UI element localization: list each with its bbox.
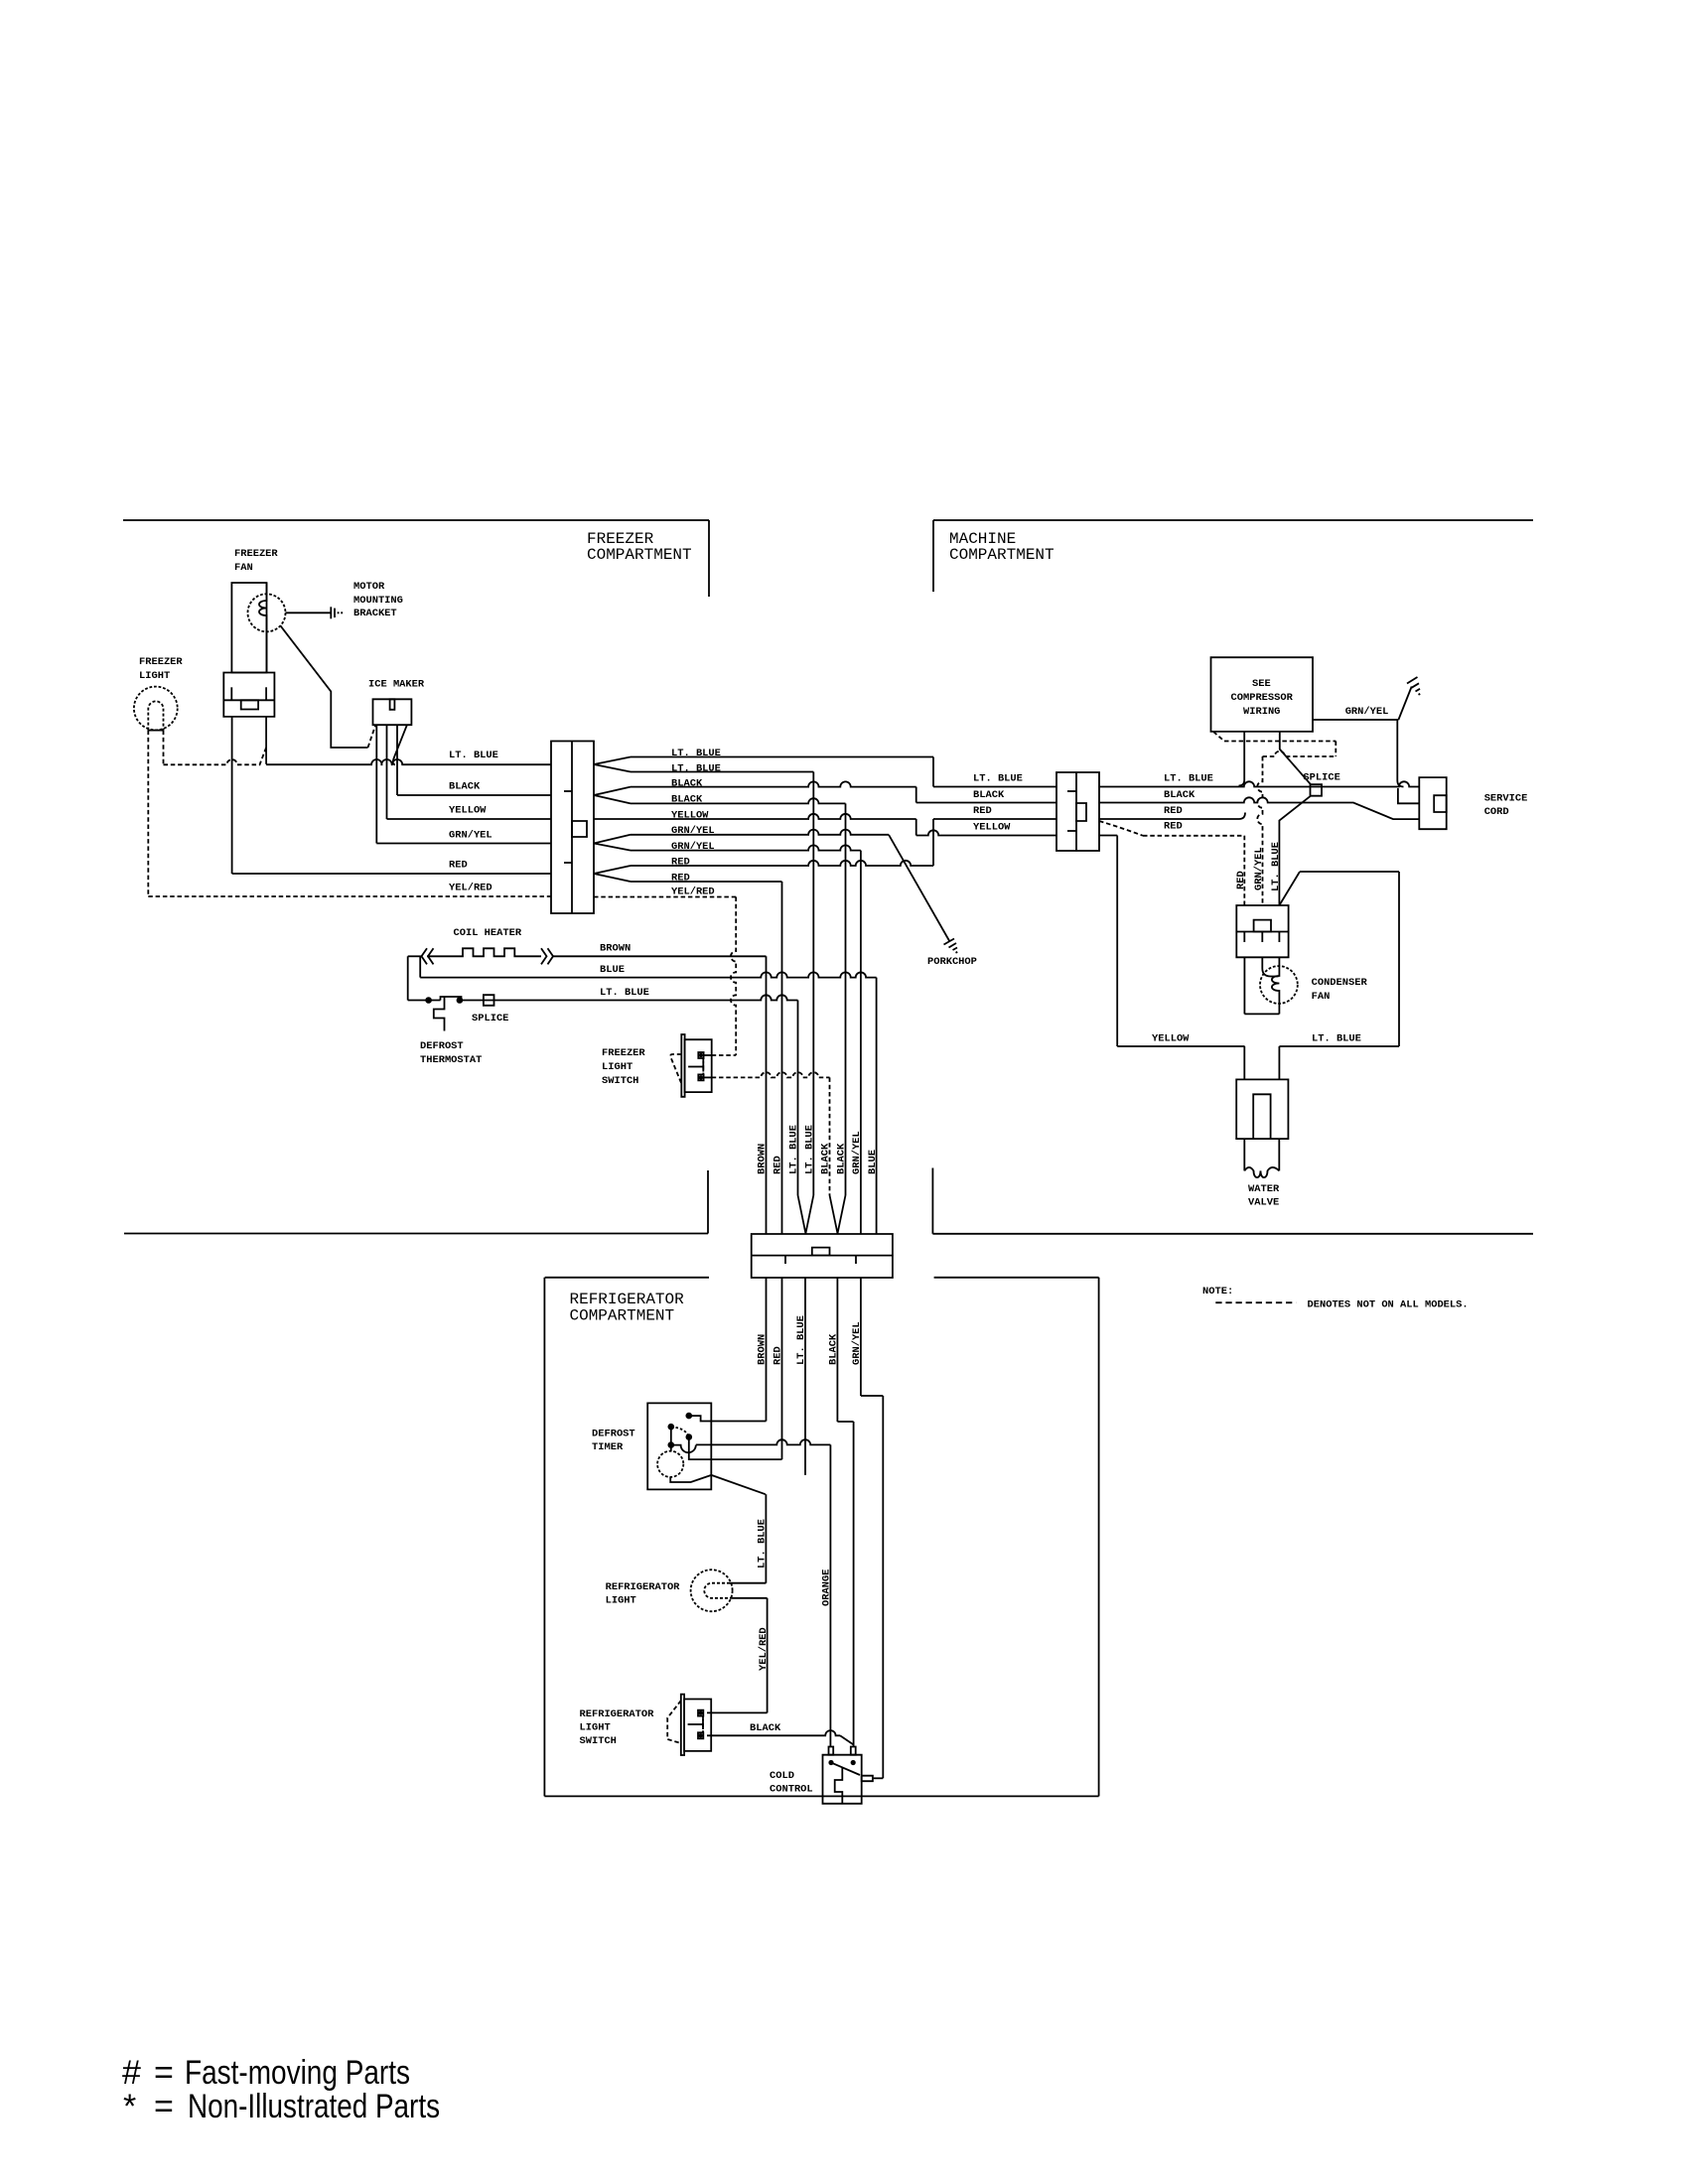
wire BROWN coil heater to refrigerator connector (553, 955, 767, 957)
relay pin to condenser fan winding (1262, 957, 1278, 976)
wire RED (2) J1 to refrigerator connector (631, 881, 782, 883)
water valve coil leads (1243, 1139, 1245, 1170)
svg-text:FREEZER: FREEZER (602, 1047, 645, 1059)
svg-text:=: = (154, 2088, 174, 2125)
wire ORANGE timer to cold control (829, 1444, 831, 1746)
motor mounting bracket lead (286, 612, 332, 614)
wire BLACK switch to cold control (707, 1730, 840, 1735)
wire BLACK pair wedge into connector (830, 1195, 838, 1234)
defrost timer terminal 3 lead (RED) (689, 1437, 782, 1460)
porkchop ground hash marks (944, 939, 955, 945)
wire YELLOW to water valve pin (1243, 1046, 1245, 1079)
machine compartment border (top) (933, 519, 1533, 521)
svg-text:MOTOR: MOTOR (353, 581, 385, 593)
wire BLUE down to refrigerator connector (876, 978, 878, 1234)
wire BROWN down to refrigerator connector (766, 956, 768, 1234)
svg-text:TIMER: TIMER (592, 1441, 624, 1453)
freezer light switch S3 body (685, 1039, 712, 1092)
svg-text:FREEZER: FREEZER (139, 656, 183, 668)
wire LT. BLUE relay to condenser fan loop (1279, 872, 1300, 905)
defrost thermostat capillary (434, 997, 445, 1031)
porkchop ground lead (diagonal) (889, 835, 950, 942)
cold control terminal blade 2 (851, 1747, 856, 1755)
svg-text:BLACK: BLACK (449, 781, 481, 793)
svg-text:#: # (122, 2054, 141, 2092)
relay pin ticks (1243, 932, 1245, 943)
svg-text:SPLICE: SPLICE (472, 1013, 508, 1024)
svg-text:ORANGE: ORANGE (821, 1570, 833, 1606)
svg-text:BLACK: BLACK (828, 1333, 840, 1365)
wire YEL/RED into J1 (dashed) (148, 895, 551, 897)
ice maker A1 key notch (390, 699, 395, 710)
svg-text:BROWN: BROWN (757, 1334, 769, 1365)
refrigerator compartment border (545, 1277, 709, 1279)
svg-text:PORKCHOP: PORKCHOP (927, 956, 977, 968)
wire GRN/YEL compressor to chassis ground (1313, 719, 1398, 721)
cold control contact dots (828, 1760, 833, 1765)
wire RED (1) step up to J2 (932, 819, 934, 866)
wire LT. BLUE (1) step down to J2 (932, 757, 934, 787)
svg-text:BLACK: BLACK (836, 1143, 848, 1174)
wire LT. BLUE J3 to defrost timer (804, 1278, 806, 1475)
ice maker pin 3 wire to YELLOW (386, 725, 388, 819)
wire BROWN J3 to defrost timer (766, 1278, 768, 1422)
svg-text:LT. BLUE: LT. BLUE (1312, 1033, 1361, 1045)
ice maker A1 (body) (373, 699, 412, 725)
fan connector P2 key notch (241, 700, 258, 709)
svg-text:COMPARTMENT: COMPARTMENT (949, 546, 1055, 564)
wire fan motor to ice maker (diagonal) (280, 625, 367, 748)
defrost timer terminal 4 dot (668, 1441, 675, 1448)
wire BLACK into J1 (397, 794, 551, 796)
wire YELLOW J1 to J2 (594, 814, 916, 819)
refrigerator light LP2 (dashed globe) (691, 1570, 733, 1611)
connector J1 tick A (564, 790, 572, 792)
svg-text:SERVICE: SERVICE (1484, 793, 1528, 805)
defrost timer terminal 1 dot (686, 1413, 693, 1420)
svg-text:COIL HEATER: COIL HEATER (454, 927, 522, 939)
svg-text:*: * (123, 2088, 136, 2125)
connector J3 (refrigerator harness) housing (752, 1234, 893, 1278)
wire GRN/YEL pair wedge at J1 (594, 835, 631, 844)
svg-text:GRN/YEL: GRN/YEL (851, 1321, 863, 1365)
refrigerator light switch S4 body (684, 1700, 711, 1751)
svg-text:YELLOW: YELLOW (449, 805, 487, 817)
svg-text:GRN/YEL: GRN/YEL (671, 825, 715, 837)
svg-text:COMPARTMENT: COMPARTMENT (587, 546, 692, 564)
refrigerator light leads (730, 1582, 766, 1584)
svg-text:RED: RED (1164, 821, 1183, 833)
cold control bellows (835, 1767, 843, 1803)
freezer fan motor M1 (winding) (259, 583, 267, 673)
svg-text:RED: RED (1235, 871, 1247, 889)
svg-text:RED: RED (449, 860, 468, 872)
svg-text:MOUNTING: MOUNTING (353, 595, 403, 607)
wire RED to start relay (dashed) (1243, 836, 1245, 905)
svg-text:GRN/YEL: GRN/YEL (851, 1131, 863, 1174)
wire RED J2 to start relay (dashed) (1099, 821, 1143, 836)
condenser fan motor (dashed circle) (1260, 966, 1298, 1004)
freezer compartment border (bottom) (124, 1233, 708, 1235)
svg-text:COMPRESSOR: COMPRESSOR (1231, 692, 1294, 704)
relay key notch (1254, 920, 1271, 932)
wire RED fan connector to J1 (231, 717, 233, 874)
wire GRN/YEL (1) J1 to porkchop ground (631, 830, 889, 835)
defrost timer terminal 4 lead (ORANGE) (671, 1445, 696, 1453)
svg-text:YELLOW: YELLOW (973, 822, 1011, 834)
wire freezer light to fan circuit (dashed) (163, 731, 165, 765)
svg-text:RED: RED (1164, 805, 1183, 817)
fan connector P2 pin 2 (265, 687, 267, 700)
svg-text:BLACK: BLACK (750, 1722, 781, 1734)
svg-text:BLUE: BLUE (867, 1150, 879, 1174)
svg-text:BLACK: BLACK (1164, 789, 1196, 801)
svg-text:SWITCH: SWITCH (602, 1075, 638, 1087)
connector J2 tick A (1067, 790, 1076, 792)
wire RED (1) J1 to J2 (631, 861, 933, 866)
wire BLUE coil heater to refrigerator connector (419, 956, 421, 977)
svg-text:YEL/RED: YEL/RED (671, 887, 715, 898)
refrigerator light LP2 bulb element (704, 1583, 730, 1598)
connector J3 key notch (812, 1248, 830, 1256)
svg-text:ICE MAKER: ICE MAKER (368, 679, 425, 691)
coil heater element (BROWN side) (407, 956, 409, 1000)
freezer fan motor M1 (dashed motor circle) (248, 594, 286, 631)
splice S1 (defrost circuit) (484, 995, 494, 1006)
wire BLUE splice to start relay (1279, 796, 1311, 905)
freezer light switch terminal 1 (698, 1052, 703, 1058)
connector J1 tick B (564, 862, 572, 864)
wire YEL/RED J1 to freezer light switch (dashed) (594, 896, 736, 898)
motor mounting bracket ground symbol (330, 607, 332, 618)
wire GRN/YEL into J1 (376, 843, 551, 845)
wire BLACK freezer light switch to refrigerator connector (dashed) (704, 1076, 712, 1078)
wire BLACK (dashed) down to refrigerator connector (829, 1077, 831, 1195)
wire LT. BLUE pair wedge at J1 (594, 757, 631, 765)
wire BLACK (1) J1 to J2 (631, 781, 916, 786)
svg-text:DENOTES NOT ON ALL MODELS.: DENOTES NOT ON ALL MODELS. (1308, 1299, 1469, 1311)
svg-text:LT. BLUE: LT. BLUE (449, 750, 498, 761)
wire LT. BLUE (2) J1 to refrigerator connector (631, 771, 813, 773)
svg-text:THERMOSTAT: THERMOSTAT (420, 1054, 482, 1066)
wire RED pair wedge at J1 (594, 866, 631, 874)
wire GRN/YEL (2) J1 to refrigerator connector (631, 845, 861, 850)
wire YELLOW step down to J2 (915, 819, 917, 836)
freezer light switch common bar (688, 1066, 703, 1068)
svg-text:RED: RED (973, 805, 992, 817)
defrost timer terminal 3 dot (686, 1433, 693, 1440)
ice maker pin 2 wire to GRN/YEL (375, 725, 377, 843)
compressor box lead 1 (curl to LT. BLUE) (1239, 732, 1245, 786)
svg-text:CONDENSER: CONDENSER (1312, 977, 1368, 989)
svg-text:LT. BLUE: LT. BLUE (788, 1125, 800, 1174)
wire LT. BLUE (2) down to refrigerator connector (812, 772, 814, 1196)
cold control body (823, 1755, 862, 1804)
wire RED into J1 (232, 873, 551, 875)
service cord neutral stub (1398, 788, 1419, 803)
svg-text:SWITCH: SWITCH (580, 1735, 617, 1747)
svg-text:REFRIGERATOR: REFRIGERATOR (606, 1581, 681, 1593)
wire GRN/YEL J3 to cold control (860, 1278, 862, 1396)
freezer compartment border (top) (123, 519, 709, 521)
svg-text:LT. BLUE: LT. BLUE (795, 1315, 807, 1365)
refrigerator light switch terminal 2 (698, 1732, 703, 1738)
svg-text:SEE: SEE (1252, 678, 1271, 690)
svg-text:RED: RED (773, 1346, 784, 1365)
svg-text:BROWN: BROWN (600, 943, 631, 955)
svg-text:BROWN: BROWN (757, 1144, 769, 1174)
splice S2 (service cord) (1311, 784, 1323, 796)
svg-text:YEL/RED: YEL/RED (758, 1627, 770, 1671)
svg-text:VALVE: VALVE (1248, 1197, 1279, 1209)
service cord plug (1419, 777, 1446, 829)
svg-text:FAN: FAN (234, 562, 253, 574)
wire LT. BLUE (defrost) down to refrigerator connector (797, 1001, 799, 1196)
cold control ground tab (862, 1776, 873, 1782)
defrost timer motor (dashed circle) (657, 1451, 683, 1477)
wire LT. BLUE (1) J1 to J2 (631, 756, 933, 758)
freezer light switch actuator (670, 1054, 681, 1084)
ice maker pin 5 wire to LT. BLUE (diagonal) (393, 725, 407, 764)
freezer light switch contact link (dashed) (702, 1058, 704, 1074)
wire LT. BLUE into J1 (266, 759, 551, 764)
svg-text:YELLOW: YELLOW (1152, 1033, 1190, 1045)
defrost timer switch arm (dashed) (671, 1427, 689, 1436)
svg-text:=: = (154, 2054, 174, 2092)
svg-text:LT. BLUE: LT. BLUE (1164, 773, 1213, 785)
wire YEL/RED to freezer light switch (dashed) (731, 897, 736, 1056)
wire GRN/YEL down to refrigerator connector (860, 851, 862, 1234)
water valve solenoid body (1236, 1079, 1288, 1139)
connector J2 tick B (1067, 830, 1076, 832)
freezer light switch S3 mounting plate (681, 1034, 684, 1097)
condenser fan winding (1272, 957, 1280, 1014)
refrigerator light switch common bar (688, 1723, 703, 1725)
refrigerator light switch contact link (dashed) (702, 1716, 704, 1733)
chassis ground hash marks (1407, 677, 1418, 684)
wire LT. BLUE timer to refrigerator light (765, 1494, 767, 1583)
refrigerator light switch actuator (667, 1701, 681, 1743)
compressor wiring reference box (1211, 657, 1314, 732)
ice maker pin 4 wire to BLACK (396, 725, 398, 795)
svg-text:WATER: WATER (1248, 1183, 1280, 1195)
svg-text:GRN/YEL: GRN/YEL (671, 841, 715, 853)
wire BLACK J3 to cold control (836, 1278, 838, 1422)
freezer light LP1 (bulb element) (148, 701, 163, 730)
svg-text:REFRIGERATOR: REFRIGERATOR (580, 1708, 655, 1720)
svg-text:YELLOW: YELLOW (671, 810, 709, 822)
svg-text:LT. BLUE: LT. BLUE (600, 987, 649, 999)
svg-text:LT. BLUE: LT. BLUE (671, 748, 721, 759)
wire BLACK pair wedge at J1 (594, 787, 631, 795)
refrigerator light switch S4 mounting plate (681, 1695, 684, 1755)
connector J3 tick B (855, 1256, 857, 1264)
cold control terminal blade 1 (829, 1747, 834, 1755)
wire YELLOW into J1 (387, 818, 552, 820)
freezer light switch terminal 2 (698, 1074, 703, 1080)
svg-text:LIGHT: LIGHT (602, 1061, 633, 1073)
defrost timer terminal 1 lead (BROWN) (689, 1416, 767, 1421)
defrost timer box (647, 1403, 711, 1489)
condenser fan return wire (1243, 957, 1245, 1014)
wire GRN/YEL to start relay (dashed) (1257, 756, 1262, 905)
wire BLACK (2) J1 to refrigerator connector (631, 798, 846, 803)
svg-text:BLACK: BLACK (671, 778, 703, 790)
refrigerator light switch terminal 1 (698, 1710, 703, 1716)
svg-text:Fast-moving Parts: Fast-moving Parts (185, 2054, 410, 2092)
svg-text:GRN/YEL: GRN/YEL (1345, 706, 1389, 718)
wire LT. BLUE fan connector down (265, 717, 267, 764)
wire LT. BLUE to water valve pin (1278, 1046, 1280, 1079)
svg-text:COMPARTMENT: COMPARTMENT (570, 1307, 675, 1325)
svg-text:GRN/YEL: GRN/YEL (1253, 847, 1265, 890)
wire YELLOW J2 to water valve (1099, 835, 1117, 837)
wire LT. BLUE J2 to splice and service cord (1099, 781, 1419, 786)
svg-text:LIGHT: LIGHT (139, 670, 170, 682)
svg-text:LT. BLUE: LT. BLUE (1270, 842, 1282, 891)
svg-text:GRN/YEL: GRN/YEL (449, 830, 492, 842)
cold control switch arm (831, 1763, 860, 1776)
svg-text:LT. BLUE: LT. BLUE (973, 773, 1023, 785)
svg-text:YEL/RED: YEL/RED (449, 883, 492, 894)
defrost timer terminal 2-4 link (670, 1427, 672, 1444)
connector J1 key notch (572, 821, 587, 837)
wire RED down to refrigerator connector (781, 882, 783, 1234)
wire freezer light to YEL/RED (dashed) (147, 731, 149, 896)
svg-text:DEFROST: DEFROST (592, 1429, 635, 1440)
svg-text:RED: RED (671, 857, 690, 869)
svg-text:BRACKET: BRACKET (353, 608, 397, 619)
svg-text:FAN: FAN (1312, 991, 1331, 1003)
svg-text:BLACK: BLACK (820, 1143, 832, 1174)
svg-text:LT. BLUE: LT. BLUE (757, 1519, 769, 1569)
defrost timer terminal 2 dot (668, 1424, 675, 1431)
defrost timer motor lead (LT. BLUE) (670, 1475, 711, 1482)
svg-text:CORD: CORD (1484, 806, 1509, 818)
fan connector P2 pin 1 (230, 687, 232, 700)
svg-text:WIRING: WIRING (1243, 706, 1280, 718)
svg-text:LIGHT: LIGHT (580, 1722, 611, 1734)
wire RED J2 to compressor (curl end) (1099, 813, 1245, 820)
svg-text:COLD: COLD (770, 1770, 794, 1782)
svg-text:LT. BLUE: LT. BLUE (671, 763, 721, 775)
wire LT. BLUE defrost thermostat circuit (408, 1000, 441, 1002)
wire BLACK (1) step down to J2 (915, 787, 917, 803)
wire RED J3 to defrost timer (781, 1278, 783, 1459)
svg-text:DEFROST: DEFROST (420, 1040, 464, 1052)
connector J2 (machine harness) housing (1056, 772, 1099, 851)
wire LT. BLUE pair wedge into connector (798, 1195, 806, 1234)
connector J2 key notch (1076, 803, 1086, 821)
wire BLACK (2) down to refrigerator connector (845, 803, 847, 1195)
svg-text:RED: RED (773, 1156, 784, 1174)
wire YEL/RED light to switch (767, 1598, 769, 1713)
svg-text:Non-Illustrated Parts: Non-Illustrated Parts (188, 2088, 440, 2125)
freezer fan motor M1 (shroud) (231, 583, 266, 673)
start relay / overload connector (1236, 905, 1288, 957)
svg-text:LIGHT: LIGHT (606, 1595, 636, 1607)
fan connector P2 (housing) (223, 673, 274, 717)
svg-text:CONTROL: CONTROL (770, 1784, 813, 1796)
note dashed sample (1215, 1301, 1296, 1303)
connector J1 (freezer harness) housing (551, 742, 594, 914)
connector J3 tick A (784, 1256, 786, 1264)
machine compartment border (bottom) (932, 1233, 1533, 1235)
defrost thermostat junction dot B (457, 997, 464, 1004)
svg-text:BLACK: BLACK (671, 794, 703, 806)
wire BLACK J2 to service cord (1099, 797, 1419, 819)
svg-text:SPLICE: SPLICE (1303, 772, 1339, 784)
defrost thermostat junction dot A (425, 997, 432, 1004)
svg-text:RED: RED (671, 873, 690, 885)
freezer light LP1 (dashed globe) (134, 687, 178, 731)
wire GRN/YEL compressor loop (dashed) (1213, 732, 1224, 742)
svg-text:FREEZER: FREEZER (234, 548, 278, 560)
wire GRN/YEL ground branch to service cord (curl) (1397, 720, 1403, 787)
svg-text:REFRIGERATOR: REFRIGERATOR (570, 1291, 685, 1308)
svg-text:LT. BLUE: LT. BLUE (804, 1125, 816, 1174)
svg-text:BLACK: BLACK (973, 789, 1005, 801)
wire ice maker pin 1 (dashed riser) (368, 726, 376, 748)
defrost thermostat contact bridge (441, 997, 462, 1001)
compressor box lead 2 to splice (1280, 732, 1311, 784)
svg-text:NOTE:: NOTE: (1202, 1286, 1233, 1297)
water valve coil (1244, 1167, 1279, 1177)
svg-text:BLUE: BLUE (600, 964, 625, 976)
